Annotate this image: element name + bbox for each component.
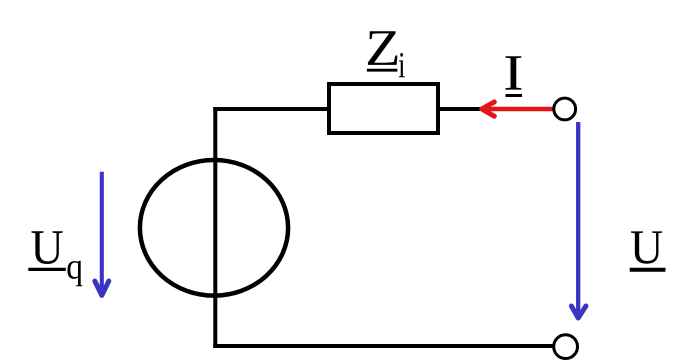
voltage source U_q (ideal source circle symbol)	[140, 160, 288, 296]
label I	[505, 56, 522, 95]
voltage arrow U_q (blue, left side)	[95, 172, 109, 296]
label Z_i	[367, 31, 405, 77]
resistor Z_i (impedance box)	[329, 84, 438, 133]
label U (right)	[630, 231, 666, 269]
current arrow I (red)	[482, 102, 553, 116]
wire: bottom horizontal (source to bottom terminal)	[213, 344, 552, 348]
terminal (top right)	[554, 98, 576, 120]
wire: top horizontal (source to resistor)	[213, 107, 327, 111]
wire: left vertical rail through source	[213, 107, 217, 348]
label U_q (left)	[28, 231, 82, 286]
voltage arrow U (blue, right side)	[571, 122, 586, 318]
terminal (bottom right)	[554, 335, 578, 359]
wire: resistor right lead	[440, 107, 480, 111]
